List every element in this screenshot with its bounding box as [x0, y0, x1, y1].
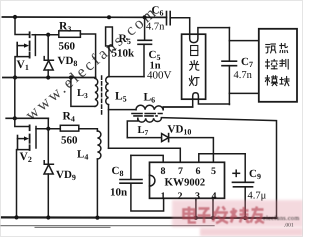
wire mid node to V2	[14, 78, 16, 119]
svg-text:10n: 10n	[110, 187, 127, 199]
wire lamp bottom-left to L6	[163, 106, 193, 108]
wire pin4 to bus	[212, 199, 214, 218]
node VD9 bottom junction	[46, 215, 50, 219]
inductor L5	[106, 77, 144, 105]
svg-text:L6: L6	[144, 92, 156, 105]
watermark char shao	[231, 207, 250, 223]
wire pin8 row	[131, 155, 163, 162]
module box	[259, 29, 297, 102]
svg-text:4.7μ: 4.7μ	[248, 191, 267, 202]
inductor L6	[109, 105, 193, 110]
IC U1 KW9002	[150, 162, 225, 198]
svg-text:1: 1	[161, 191, 166, 202]
wire L7 right to right-side drop	[161, 118, 276, 218]
capacitor C8	[120, 155, 164, 211]
transformer core L6-L7	[132, 113, 162, 115]
svg-text:8: 8	[161, 166, 166, 177]
scan artifact line 2	[35, 226, 110, 228]
node V2 source junction	[14, 215, 18, 219]
module label 预热	[266, 44, 288, 54]
svg-text:L3: L3	[77, 88, 88, 100]
transformer core L3-L5	[101, 76, 103, 114]
node top-left junction	[13, 15, 17, 19]
wire top bus	[2, 16, 166, 18]
lamp box	[182, 34, 206, 99]
svg-text:L7: L7	[138, 125, 149, 137]
zener diode VD8	[44, 35, 53, 78]
wire bottom bus	[2, 216, 277, 219]
node L3 return junction	[69, 75, 73, 79]
capacitor C9	[233, 154, 254, 218]
scan artifact line	[0, 225, 214, 227]
wire R4 row	[36, 127, 60, 129]
wire pin3 to bus	[195, 199, 197, 218]
watermark bottom red band	[172, 200, 303, 227]
svg-text:5: 5	[211, 166, 216, 177]
svg-text:R3: R3	[59, 21, 71, 34]
watermark char fa	[213, 207, 228, 224]
svg-text:L4: L4	[77, 149, 88, 162]
transistor V1	[15, 17, 59, 78]
zener diode VD9	[44, 129, 53, 218]
svg-text:elecfans.com: elecfans.com	[263, 215, 300, 222]
module label 模块	[265, 76, 289, 86]
svg-text:4.7n: 4.7n	[234, 70, 253, 81]
node R5 top junction	[107, 15, 111, 19]
lamp label 灯	[189, 76, 199, 86]
inductor L3	[71, 78, 98, 107]
svg-text:560: 560	[61, 135, 78, 147]
svg-text:KW9002: KW9002	[165, 177, 206, 189]
svg-text:R4: R4	[63, 111, 75, 124]
resistor R4	[60, 125, 79, 131]
svg-text:560: 560	[59, 41, 76, 53]
node V2 drain junction	[13, 116, 17, 120]
lamp top right lead	[198, 28, 230, 35]
capacitor C6	[167, 12, 190, 39]
transistor V2	[15, 118, 36, 217]
wire pin6 row to C9	[199, 154, 245, 163]
watermark char zi	[198, 209, 211, 224]
wire R4 right to L4	[79, 129, 98, 131]
node mid-left junction	[13, 75, 17, 79]
svg-text:C8: C8	[112, 165, 124, 178]
node C5 top junction	[143, 15, 147, 19]
svg-text:C7: C7	[241, 56, 253, 69]
capacitor C7	[222, 28, 237, 105]
watermark char you	[251, 207, 265, 223]
wire drop to R4 row	[47, 118, 49, 128]
svg-text:400V: 400V	[147, 70, 172, 82]
node VD8 bottom junction	[46, 75, 50, 79]
node R4 row junction	[46, 127, 50, 131]
wire L5 bottom down to pin7 line	[108, 105, 110, 149]
svg-text:6: 6	[196, 166, 201, 177]
svg-text:L5: L5	[115, 91, 127, 104]
lamp top filament	[190, 34, 198, 42]
svg-text:C9: C9	[249, 168, 261, 181]
node gate V1 junction	[46, 33, 50, 37]
wire C7 to module top	[229, 40, 258, 42]
svg-text:7: 7	[178, 166, 183, 177]
inductor L4	[97, 131, 101, 217]
node pin4 junction	[211, 216, 215, 220]
wire V2 drain row	[6, 117, 48, 119]
svg-text:VD10: VD10	[168, 124, 192, 137]
svg-text:VD9: VD9	[56, 169, 76, 182]
diode VD10	[127, 134, 213, 163]
resistor R5	[106, 27, 113, 46]
lamp bottom filament	[193, 93, 199, 99]
lamp label 光	[190, 61, 199, 71]
wire pin7 row	[109, 148, 181, 162]
resistor R3	[59, 31, 81, 38]
module label 控制	[266, 60, 289, 70]
inductor L7	[127, 118, 161, 137]
node L4 bottom junction	[95, 216, 99, 220]
node pin3 junction	[194, 216, 198, 220]
svg-text:.001: .001	[284, 223, 294, 229]
node C9 bottom junction	[243, 216, 247, 220]
svg-text:V2: V2	[20, 151, 32, 164]
wire mid bus	[3, 77, 96, 79]
svg-text:V1: V1	[17, 59, 29, 72]
lamp bottom leads	[192, 99, 194, 107]
wire C7 to module bottom	[229, 92, 258, 94]
capacitor C5	[138, 17, 152, 76]
wire R3 right to L3 top	[80, 34, 95, 78]
lamp label 日	[191, 46, 198, 56]
watermark char dian	[184, 207, 197, 223]
watermark pink corner band	[200, 228, 303, 236]
